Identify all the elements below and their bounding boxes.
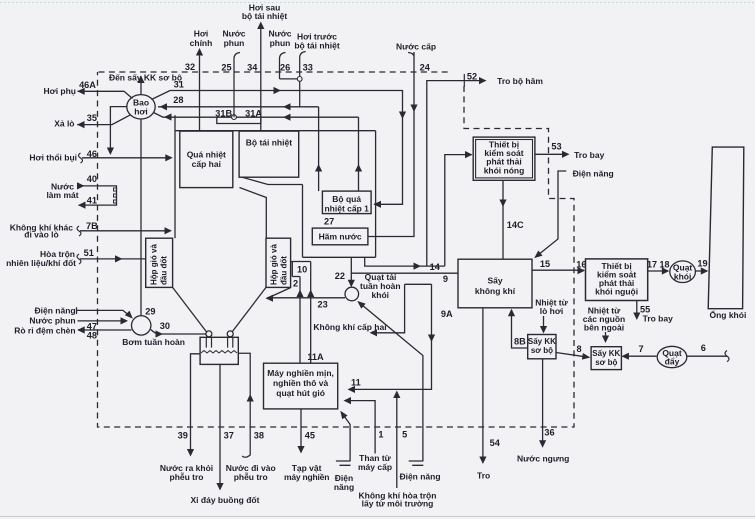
- wire 8 between preheaters: [556, 353, 589, 358]
- wire 31A-31B into drum lower nozzle: [154, 113, 359, 118]
- svg-text:27: 27: [324, 217, 334, 227]
- svg-text:28: 28: [173, 95, 183, 105]
- wire 15-16 gas to cold-side controls: [532, 269, 584, 271]
- svg-text:đầu đốt: đầu đốt: [280, 256, 289, 285]
- svg-text:lấy từ môi trường: lấy từ môi trường: [362, 499, 434, 509]
- svg-text:khói: khói: [674, 271, 691, 281]
- wire 14 gas to hot-side controls: [365, 257, 445, 266]
- svg-text:không khí: không khí: [475, 286, 516, 296]
- svg-text:Không khí cấp hai: Không khí cấp hai: [313, 322, 386, 332]
- wire 8B to air heater: [512, 310, 528, 348]
- svg-text:Nước phun: Nước phun: [29, 315, 75, 325]
- svg-text:hơi: hơi: [134, 106, 148, 116]
- svg-text:45: 45: [305, 430, 315, 440]
- wire electric power to mill: [336, 413, 351, 466]
- svg-text:cấp hai: cấp hai: [192, 159, 221, 169]
- wire 46A auxiliary steam: [78, 91, 133, 98]
- wire 22 gas to recirculation fan: [350, 257, 352, 286]
- slag tap node right: [227, 331, 233, 337]
- svg-text:Bơm tuần hoàn: Bơm tuần hoàn: [122, 337, 185, 347]
- wire 7 from FD fan: [623, 355, 657, 357]
- svg-text:Hơi thổi bụi: Hơi thổi bụi: [29, 153, 77, 163]
- svg-text:Nước: Nước: [268, 28, 291, 38]
- box air heater Say khong khi: [458, 259, 532, 308]
- node on line 25 at 31B: [232, 115, 237, 120]
- stack Ong khoi: [708, 147, 744, 309]
- svg-text:quạt hút gió: quạt hút gió: [276, 388, 325, 398]
- wire furnace left wall: [174, 115, 176, 238]
- wire electric power to recirculation fan: [359, 302, 424, 465]
- svg-text:Tro bay: Tro bay: [643, 313, 674, 323]
- wire riser from primary superheater left: [318, 107, 320, 191]
- svg-text:9A: 9A: [441, 309, 453, 319]
- svg-text:Sấy KK: Sấy KK: [592, 349, 620, 358]
- svg-text:khói nóng: khói nóng: [484, 165, 525, 175]
- wire 1 coal from feeder Than tu may cap: [345, 401, 375, 454]
- wire burner line A from mill: [310, 262, 312, 364]
- box cold-side emission control Thiet bi kiem soat phat thai khoi nguoi: [586, 259, 648, 301]
- wire steam to preliminary air heating (Den say KK so bo): [140, 78, 142, 95]
- svg-text:phễu tro: phễu tro: [234, 472, 268, 482]
- wire 36 condensate out: [542, 359, 544, 446]
- svg-text:đẩy: đẩy: [665, 357, 680, 367]
- svg-text:37: 37: [224, 430, 234, 440]
- wire 34 hot reheat steam: [260, 25, 262, 131]
- svg-text:Nước: Nước: [222, 28, 245, 38]
- wire riser to hot-side control box: [445, 155, 472, 267]
- wire 52 economizer ash: [427, 81, 485, 267]
- svg-text:phun: phun: [270, 38, 291, 48]
- wire furnace hopper left slope: [173, 287, 207, 331]
- svg-text:46: 46: [87, 149, 97, 159]
- svg-text:Sấy: Sấy: [487, 275, 502, 285]
- svg-text:8: 8: [576, 344, 581, 354]
- svg-text:31: 31: [174, 80, 184, 90]
- wire furnace throat lower and right wall: [240, 188, 267, 239]
- wire 23 fan to windbox: [267, 288, 346, 299]
- wire drum main downcomer to pump: [140, 119, 142, 316]
- wire 45 pyrites reject: [300, 409, 302, 451]
- svg-text:14C: 14C: [507, 220, 524, 230]
- slag tank water line: [201, 351, 237, 354]
- fan circle Quat day FD fan: [657, 346, 687, 367]
- wire windbox step connectors: [291, 262, 311, 277]
- box reheater (Bo tai nhiet): [239, 131, 299, 177]
- svg-text:33: 33: [303, 63, 313, 73]
- svg-text:10: 10: [297, 264, 307, 274]
- svg-text:nhiên liệu/khí đốt: nhiên liệu/khí đốt: [6, 258, 76, 268]
- wire back-pass right wall: [375, 131, 377, 258]
- svg-text:làm mát: làm mát: [46, 190, 78, 200]
- svg-text:46A: 46A: [79, 80, 96, 90]
- svg-text:32: 32: [185, 62, 195, 72]
- svg-text:9: 9: [443, 274, 448, 284]
- svg-text:bộ tái nhiệt: bộ tái nhiệt: [294, 40, 340, 50]
- wire 25 spray water: [234, 53, 240, 118]
- wire heat from boiler into 8B preheater: [543, 316, 545, 332]
- wire 14C gas to air heater: [502, 180, 504, 258]
- drum Bao hoi: [127, 95, 155, 119]
- svg-text:2: 2: [293, 278, 298, 288]
- svg-text:7B: 7B: [86, 221, 98, 231]
- svg-text:Tro bay: Tro bay: [574, 150, 605, 160]
- svg-text:48: 48: [87, 331, 97, 341]
- slag tap node left: [206, 331, 212, 337]
- wire 53 fly ash out: [535, 153, 568, 155]
- svg-text:40: 40: [87, 174, 97, 184]
- svg-text:bên ngoài: bên ngoài: [584, 323, 624, 333]
- box mill May nghien min nghien tho va quat hut gio: [264, 363, 338, 409]
- wire 30 pump discharge: [151, 330, 206, 335]
- wire 17-18 gas to ID fan: [648, 270, 668, 272]
- svg-text:29: 29: [145, 307, 155, 317]
- svg-text:14: 14: [430, 262, 441, 272]
- svg-text:Điện năng: Điện năng: [399, 472, 440, 482]
- svg-text:35: 35: [87, 113, 97, 123]
- box preliminary air heater right Say KK so bo: [591, 347, 621, 370]
- svg-text:Nước cấp: Nước cấp: [396, 42, 436, 52]
- svg-text:chính: chính: [190, 38, 213, 48]
- wire 46 sootblowing steam Hoi thoi bui: [82, 157, 171, 159]
- box superheater stage-2 (Qua nhiet cap hai): [180, 131, 233, 188]
- svg-text:19: 19: [697, 258, 707, 268]
- svg-text:lò hơi: lò hơi: [540, 306, 564, 316]
- wire electric power to air heater: [536, 171, 567, 257]
- svg-text:Hơi phụ: Hơi phụ: [44, 86, 76, 96]
- svg-text:22: 22: [335, 271, 345, 281]
- svg-text:51: 51: [84, 248, 94, 258]
- svg-text:đi vào lò: đi vào lò: [24, 230, 58, 240]
- svg-text:41: 41: [87, 196, 97, 206]
- svg-text:Điện năng: Điện năng: [35, 305, 76, 315]
- svg-text:phun: phun: [224, 38, 245, 48]
- svg-text:sơ bộ: sơ bộ: [595, 358, 617, 367]
- wire 38 water into ash hopper: [238, 353, 250, 457]
- svg-text:38: 38: [254, 430, 264, 440]
- svg-text:máy nghiền: máy nghiền: [284, 472, 329, 482]
- wire 33 cold reheat steam: [300, 52, 306, 107]
- svg-text:Hãm nước: Hãm nước: [319, 232, 362, 242]
- wire 19 gas to stack: [695, 270, 707, 272]
- svg-text:Rò rỉ đệm chèn: Rò rỉ đệm chèn: [14, 325, 75, 335]
- svg-text:năng: năng: [334, 482, 354, 492]
- svg-text:Quá nhiệt: Quá nhiệt: [187, 149, 226, 159]
- box hot-side emission control Thiet bi kiem soat phat thai khoi nong: [473, 137, 535, 180]
- box superheater stage-1 (Bo qua nhiet cap 1): [322, 191, 371, 214]
- wire 48 gland seal leak Ro ri dem chen: [78, 329, 132, 331]
- svg-text:11: 11: [351, 378, 361, 388]
- fan circle Quat khoi ID fan: [670, 261, 696, 283]
- wire 54 air heater ash: [482, 308, 484, 462]
- wire 39 water out of ash hopper: [191, 354, 201, 454]
- wire 47 spray water to pump: [78, 320, 127, 322]
- svg-text:11A: 11A: [307, 352, 324, 362]
- wire 24 feedwater: [368, 52, 414, 237]
- wire 9A-11 hot primary air to mill: [349, 284, 432, 389]
- wire drum left downcomer: [110, 107, 127, 152]
- wire secondary air branch Khong khi cap hai: [371, 284, 405, 333]
- wire back-pass bottom: [303, 256, 376, 258]
- wire 28 into drum: [158, 106, 319, 108]
- wire riser from primary superheater right: [358, 117, 360, 191]
- svg-text:52: 52: [467, 72, 477, 82]
- svg-text:23: 23: [317, 300, 327, 310]
- svg-text:Sấy KK: Sấy KK: [528, 337, 556, 346]
- svg-text:nhiệt cấp 1: nhiệt cấp 1: [324, 203, 369, 213]
- dashed system boundary: [99, 71, 453, 73]
- svg-text:Máy nghiền mịn,: Máy nghiền mịn,: [267, 368, 334, 378]
- svg-text:25: 25: [221, 63, 231, 73]
- svg-text:17 18: 17 18: [647, 260, 670, 270]
- svg-text:Hộp gió và: Hộp gió và: [270, 244, 279, 285]
- wire furnace throat upper: [240, 177, 303, 185]
- svg-text:Xả lò: Xả lò: [54, 118, 74, 128]
- svg-text:phễu tro: phễu tro: [170, 472, 204, 482]
- svg-text:khói: khói: [372, 290, 389, 300]
- svg-text:6: 6: [701, 343, 706, 353]
- svg-text:26: 26: [280, 63, 290, 73]
- wire back-pass left wall: [302, 185, 304, 258]
- wire 7B other air into furnace: [80, 230, 170, 232]
- svg-text:5: 5: [402, 429, 407, 439]
- slag tank: [200, 337, 238, 364]
- svg-text:36: 36: [544, 428, 554, 438]
- wire furnace hopper right slope: [232, 287, 266, 331]
- wire boiler roof header line: [175, 130, 376, 132]
- box preliminary air heater 8B Say KK so bo: [528, 335, 556, 359]
- wire 6 ambient air into FD fan: [687, 355, 727, 357]
- wire 26 spray water to reheater: [280, 53, 300, 79]
- svg-text:Xỉ đáy buồng đốt: Xỉ đáy buồng đốt: [191, 495, 260, 505]
- wire electric power to pump: [77, 307, 132, 317]
- wire 51 fuel-gas mixture Hoa tron: [80, 258, 146, 260]
- pump circle Bom tuan hoan: [132, 316, 151, 335]
- svg-text:30: 30: [160, 321, 170, 331]
- wire external heat into right preheater: [605, 332, 607, 341]
- wire burner line B from mill: [299, 277, 301, 364]
- svg-text:Hộp gió và: Hộp gió và: [150, 244, 159, 285]
- svg-text:Tro: Tro: [477, 470, 490, 480]
- box left windbox (Hop gio va dau dot): [146, 238, 173, 287]
- svg-text:Nước ngưng: Nước ngưng: [517, 453, 569, 463]
- svg-text:24: 24: [420, 63, 431, 73]
- wire 35 blowdown Xa lo: [77, 115, 130, 125]
- svg-text:Bộ tái nhiệt: Bộ tái nhiệt: [246, 137, 292, 147]
- box right windbox (Hop gio va dau dot): [266, 238, 291, 287]
- svg-text:54: 54: [490, 438, 501, 448]
- svg-text:15: 15: [540, 259, 550, 269]
- wire 5 ambient tempering air: [396, 392, 398, 488]
- wire 37 bottom ash out: [219, 364, 221, 488]
- svg-text:bộ tái nhiệt: bộ tái nhiệt: [242, 11, 288, 21]
- node 26-33 junction: [297, 77, 302, 82]
- wire 55 fly ash from cold controls: [636, 301, 638, 319]
- svg-text:8B: 8B: [514, 336, 526, 346]
- svg-text:Điện năng: Điện năng: [573, 168, 614, 178]
- wire 40-41 cooling water loop Nuoc lam mat: [78, 186, 117, 205]
- wire 31 drum to primary superheater: [152, 91, 403, 205]
- svg-text:nghiền thô và: nghiền thô và: [273, 378, 329, 388]
- box economizer (Ham nuoc): [312, 228, 368, 245]
- svg-text:39: 39: [178, 430, 188, 440]
- svg-text:Tro bộ hâm: Tro bộ hâm: [497, 76, 543, 86]
- svg-text:1: 1: [378, 429, 383, 439]
- wire 32 main steam: [199, 52, 201, 131]
- svg-text:34: 34: [247, 63, 258, 73]
- svg-text:khói nguội: khói nguội: [595, 287, 638, 297]
- fan circle Quat tai tuan hoan khoi: [345, 287, 359, 301]
- svg-text:đầu đốt: đầu đốt: [160, 256, 169, 285]
- wire attemperator notch under 31B-31A line: [217, 117, 261, 123]
- svg-text:53: 53: [551, 141, 561, 151]
- svg-text:sơ bộ: sơ bộ: [531, 346, 553, 355]
- svg-text:Đến sấy KK sơ bộ: Đến sấy KK sơ bộ: [109, 73, 182, 83]
- wire 9 gas to air heater: [351, 272, 458, 274]
- svg-text:máy cấp: máy cấp: [358, 462, 392, 472]
- svg-text:Hơi: Hơi: [194, 28, 209, 38]
- svg-text:7: 7: [638, 344, 643, 354]
- wire connector y284: [405, 283, 432, 285]
- svg-text:Ống khói: Ống khói: [709, 309, 746, 320]
